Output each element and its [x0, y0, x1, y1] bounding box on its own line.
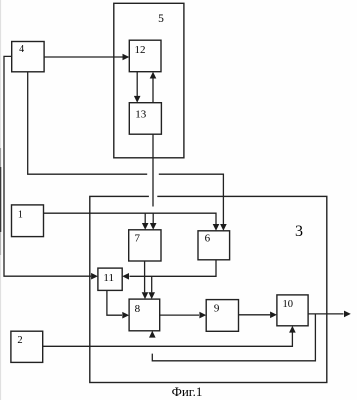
- block 10: [277, 295, 308, 326]
- arrowhead into 8 left: [122, 312, 129, 319]
- arrowhead into 9: [199, 312, 206, 319]
- svg-text:8: 8: [135, 303, 141, 315]
- svg-text:4: 4: [19, 44, 24, 55]
- block 2: [11, 331, 43, 362]
- wire 2 to 10: [43, 333, 293, 347]
- arrowhead into 12: [123, 54, 130, 61]
- scan edge artifact left: [0, 0, 2, 400]
- block 4: [12, 42, 44, 72]
- block 12: [129, 40, 161, 71]
- arrowhead into 7 left: [142, 223, 149, 230]
- svg-text:9: 9: [214, 303, 220, 315]
- arrowhead into 13: [134, 96, 141, 103]
- wire 13 to 7: [152, 134, 154, 206]
- arrowhead into 12 bottom: [150, 72, 157, 79]
- wire 4 left trunk to 11: [4, 56, 91, 276]
- svg-text:11: 11: [103, 272, 114, 284]
- arrowhead into 7 right: [150, 223, 157, 230]
- arrowhead into 8 top-left: [142, 292, 149, 299]
- wire 7 to 8: [144, 261, 146, 292]
- arrowhead into 11 right: [122, 273, 129, 280]
- block 1: [12, 205, 44, 237]
- wire 8 to 9: [160, 314, 199, 316]
- wire 9 to 10: [239, 314, 271, 316]
- wire 6 to 11: [130, 260, 217, 277]
- block 8: [129, 299, 160, 331]
- arrowhead into 8 top-right: [148, 292, 155, 299]
- wire 4 to 12: [44, 56, 122, 58]
- svg-text:12: 12: [135, 44, 146, 56]
- arrowhead into 10 left: [270, 312, 277, 319]
- wire feedback output to 8: [152, 314, 315, 361]
- arrowhead into 6 left: [213, 224, 220, 231]
- arrowhead output end: [344, 311, 351, 318]
- block 11: [98, 268, 122, 290]
- svg-text:Фиг.1: Фиг.1: [172, 384, 203, 399]
- svg-text:6: 6: [205, 232, 211, 244]
- svg-text:5: 5: [158, 13, 164, 25]
- arrowhead into 6 right: [220, 224, 227, 231]
- block 5 (outer unit): [114, 3, 184, 158]
- wire 4 bottom to 6: [28, 72, 148, 174]
- block 13: [129, 103, 161, 135]
- wire branch 6 to 8: [151, 276, 153, 292]
- wire 10 output: [308, 313, 343, 315]
- wire 13 to 12: [152, 79, 154, 103]
- svg-text:10: 10: [283, 299, 294, 310]
- block 3 (outer unit): [90, 196, 327, 382]
- scan dropout gap on block 3 top edge: [149, 195, 157, 198]
- svg-text:3: 3: [295, 223, 303, 240]
- arrowhead into 10 bottom: [289, 326, 296, 333]
- wire branch 1 to 7: [144, 213, 146, 223]
- svg-text:13: 13: [135, 108, 147, 120]
- svg-text:2: 2: [17, 335, 22, 346]
- block 6: [198, 231, 230, 260]
- wire 11 to 8: [107, 290, 122, 315]
- wire 12 to 13: [136, 72, 138, 96]
- arrowhead into 11 left: [91, 273, 98, 280]
- block 7: [129, 230, 161, 261]
- svg-text:7: 7: [135, 232, 141, 244]
- wire 1 to 6: [44, 213, 217, 224]
- svg-text:1: 1: [18, 210, 23, 221]
- wire 4 bottom to 6 continued: [159, 174, 224, 224]
- arrowhead into 8 bottom: [149, 331, 156, 338]
- wire stub into 7 right: [152, 213, 154, 223]
- block 9: [206, 300, 238, 332]
